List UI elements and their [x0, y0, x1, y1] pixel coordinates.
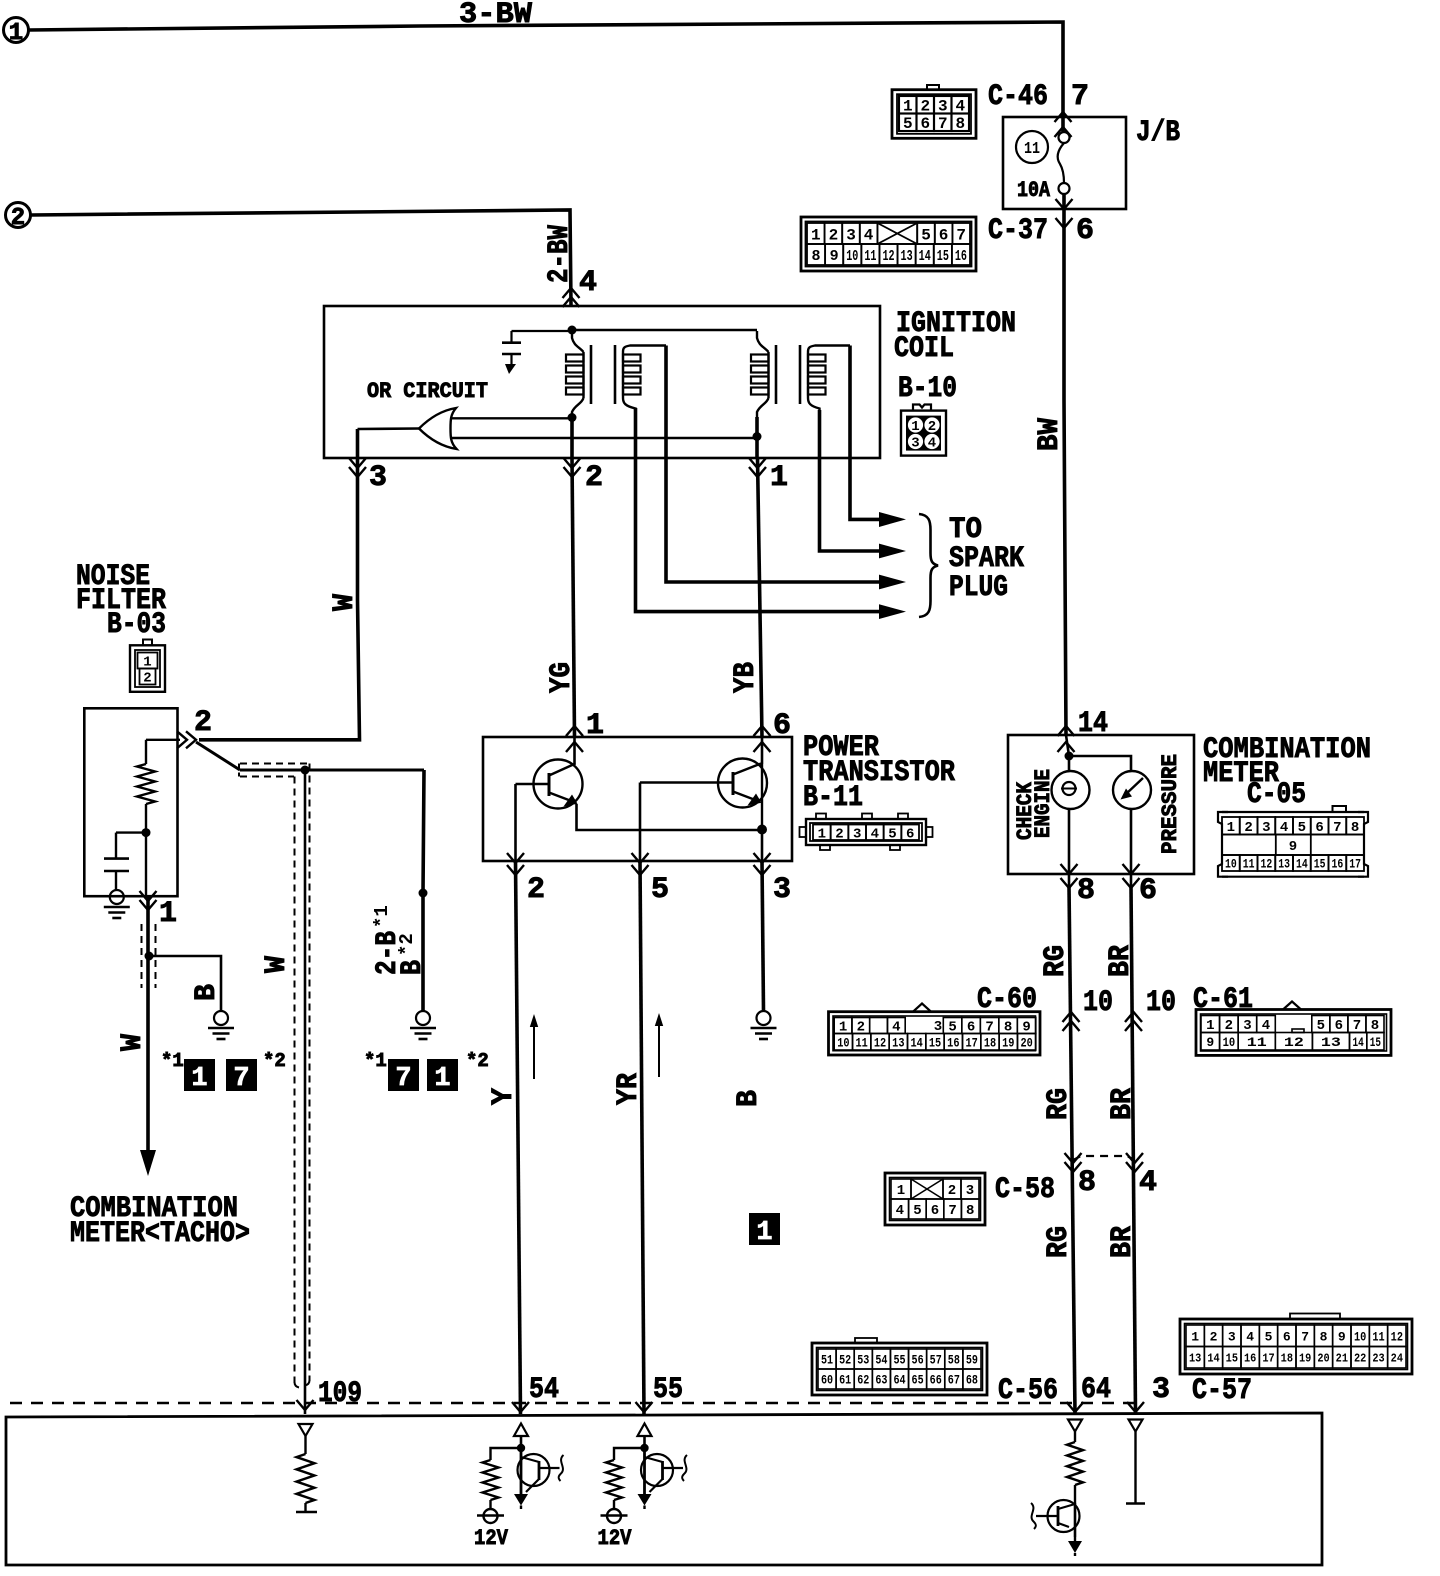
J/B bottom chevron — [1056, 199, 1073, 209]
svg-text:14: 14 — [1296, 857, 1308, 872]
BR chevron at C-58 — [1126, 1162, 1143, 1172]
junction block J/B box — [1003, 117, 1126, 209]
svg-text:8: 8 — [1077, 874, 1095, 908]
marker box 1 — [427, 1059, 458, 1091]
svg-text:2: 2 — [829, 226, 839, 244]
svg-text:1: 1 — [911, 419, 919, 435]
transistor Q1 — [534, 760, 583, 809]
wire resistor to pin 1 — [145, 804, 147, 896]
connector C-46 — [892, 90, 976, 139]
svg-text:22: 22 — [1354, 1352, 1366, 1366]
filter branch ground — [214, 1011, 228, 1025]
svg-text:8: 8 — [955, 115, 965, 133]
resistor in noise filter — [137, 764, 155, 804]
ECU pin 109 input triangle — [299, 1424, 313, 1436]
svg-text:59: 59 — [966, 1354, 978, 1368]
svg-text:14: 14 — [1353, 1035, 1364, 1050]
svg-text:7: 7 — [1301, 1329, 1309, 1344]
wire BR (meter pin 6 to ECU 3) — [1131, 886, 1136, 1413]
svg-text:B-11: B-11 — [803, 781, 863, 815]
wire pin6 to Q2 collector — [761, 737, 764, 764]
shield dashes around tacho wire — [141, 924, 143, 988]
connector C-60 — [829, 1012, 1041, 1055]
svg-text:1: 1 — [1206, 1018, 1214, 1034]
wire 3-BW from node 1 to J/B — [29, 22, 1063, 132]
svg-text:10: 10 — [1223, 1035, 1236, 1050]
svg-text:1: 1 — [756, 1218, 772, 1248]
svg-text:16: 16 — [955, 248, 967, 265]
svg-text:12: 12 — [1391, 1329, 1403, 1344]
BR chevron at C-61 — [1125, 1012, 1142, 1022]
svg-text:10A: 10A — [1017, 178, 1051, 203]
svg-text:11: 11 — [1372, 1329, 1384, 1344]
connector C-58 — [885, 1173, 985, 1225]
wire 2-BW from node 2 to ignition coil pin 4 — [31, 210, 571, 306]
svg-text:62: 62 — [857, 1374, 869, 1388]
junction node Q outputs — [757, 825, 767, 835]
wire lamp to pin 8 — [1068, 809, 1071, 886]
svg-text:*2: *2 — [396, 933, 418, 956]
svg-text:1: 1 — [191, 1064, 207, 1094]
capacitor in noise filter — [116, 831, 146, 833]
svg-text:2: 2 — [143, 671, 151, 687]
transistor pin 2 chevron — [507, 865, 524, 875]
svg-text:2: 2 — [585, 461, 603, 495]
svg-text:W: W — [260, 956, 294, 973]
svg-text:15: 15 — [1226, 1352, 1238, 1366]
svg-text:6: 6 — [906, 826, 914, 842]
svg-text:C-37: C-37 — [988, 214, 1048, 248]
svg-text:*1: *1 — [364, 1050, 387, 1072]
or-gate input wire bottom — [450, 437, 757, 439]
svg-text:*2: *2 — [263, 1050, 286, 1072]
svg-text:12: 12 — [882, 248, 894, 265]
pin 64 chevron — [1067, 1402, 1084, 1412]
svg-text:20: 20 — [1020, 1036, 1032, 1050]
fuse 11 10A — [1059, 132, 1070, 143]
svg-text:C-57: C-57 — [1192, 1374, 1252, 1408]
wire RG (meter pin 8 to ECU 64) — [1069, 886, 1075, 1413]
check engine lamp — [1052, 771, 1090, 809]
marker box 1 (transistor ground) — [749, 1213, 780, 1245]
svg-text:19: 19 — [1299, 1352, 1311, 1366]
svg-text:10: 10 — [1083, 986, 1113, 1020]
svg-text:W: W — [116, 1034, 150, 1051]
svg-text:1: 1 — [818, 826, 826, 842]
svg-text:C-61: C-61 — [1193, 983, 1253, 1017]
svg-text:20: 20 — [1317, 1352, 1329, 1366]
ECU pin 64 resistor — [1074, 1432, 1076, 1443]
svg-text:109: 109 — [318, 1377, 362, 1411]
svg-text:9: 9 — [1206, 1035, 1214, 1050]
pin 54 chevron — [512, 1402, 529, 1412]
wire pin5 riser — [639, 783, 642, 862]
connector B-03 — [130, 645, 165, 692]
svg-text:W: W — [328, 594, 362, 611]
svg-text:4: 4 — [928, 436, 936, 452]
transformer coil 1 — [572, 331, 584, 352]
svg-text:17: 17 — [965, 1036, 977, 1050]
svg-text:11: 11 — [1024, 140, 1040, 159]
ECU pin 109 resistor — [304, 1436, 306, 1454]
wire primary2 down to pin 1 — [755, 417, 759, 458]
marker box 7 (tacho) — [226, 1059, 257, 1091]
noise filter internal wire to pin 2 — [146, 739, 180, 741]
svg-text:61: 61 — [839, 1374, 851, 1388]
dashed link C-58 — [1073, 1156, 1135, 1160]
transistor pin 3 chevron — [754, 865, 771, 875]
svg-text:4: 4 — [896, 1203, 904, 1219]
svg-text:12V: 12V — [474, 1526, 509, 1551]
svg-text:7: 7 — [395, 1064, 411, 1094]
svg-text:4: 4 — [1246, 1329, 1254, 1344]
svg-text:1: 1 — [811, 226, 821, 244]
ECU pin 3 input triangle — [1129, 1420, 1143, 1432]
svg-text:15: 15 — [1370, 1035, 1381, 1050]
noise filter pin 2 chevron — [186, 731, 196, 748]
svg-text:11: 11 — [864, 248, 876, 265]
transistor B ground — [757, 1011, 771, 1025]
junction node in noise filter — [142, 828, 151, 837]
svg-text:13: 13 — [1278, 857, 1290, 872]
svg-text:5: 5 — [888, 826, 896, 842]
svg-text:5: 5 — [921, 226, 931, 244]
junction node on B wire — [419, 889, 428, 898]
svg-text:METER<TACHO>: METER<TACHO> — [70, 1217, 250, 1251]
wire W inside coil (pin 3) — [356, 429, 360, 458]
svg-text:9: 9 — [1289, 839, 1297, 855]
svg-text:63: 63 — [875, 1374, 887, 1388]
capacitor in coil — [502, 341, 521, 344]
wire to spark plug 3 — [666, 346, 881, 583]
svg-text:*1: *1 — [371, 905, 393, 928]
svg-text:11: 11 — [1243, 857, 1255, 872]
svg-text:1: 1 — [1191, 1329, 1199, 1344]
svg-text:RG: RG — [1042, 1088, 1076, 1120]
svg-text:6: 6 — [920, 115, 930, 133]
connector C-37 — [801, 217, 976, 271]
svg-text:13: 13 — [1321, 1035, 1341, 1050]
svg-text:2: 2 — [1244, 820, 1252, 836]
svg-text:60: 60 — [821, 1374, 833, 1388]
svg-text:RG: RG — [1039, 945, 1073, 977]
svg-text:6: 6 — [1076, 214, 1094, 248]
svg-text:10: 10 — [1354, 1329, 1366, 1344]
svg-text:66: 66 — [930, 1374, 942, 1388]
wire BW (J/B to combination meter pin 14) — [1064, 194, 1066, 735]
svg-text:55: 55 — [653, 1373, 683, 1407]
svg-text:2-BW: 2-BW — [543, 225, 577, 283]
svg-text:19: 19 — [1002, 1036, 1014, 1050]
svg-text:57: 57 — [930, 1354, 942, 1368]
svg-text:5: 5 — [1265, 1329, 1273, 1344]
svg-text:12V: 12V — [598, 1526, 633, 1551]
ignition coil box — [324, 306, 880, 458]
pin 6 chevron arrow — [1056, 218, 1073, 228]
svg-text:2: 2 — [194, 706, 212, 740]
svg-text:12: 12 — [1261, 857, 1273, 872]
shield end hooks — [295, 1379, 300, 1388]
power transistor box — [483, 737, 792, 861]
svg-text:65: 65 — [912, 1374, 924, 1388]
svg-text:3: 3 — [846, 226, 856, 244]
svg-text:64: 64 — [893, 1374, 906, 1388]
svg-text:17: 17 — [1262, 1352, 1274, 1366]
connector C-57 — [1180, 1319, 1412, 1374]
svg-text:10: 10 — [1146, 986, 1176, 1020]
svg-text:9: 9 — [1338, 1329, 1346, 1344]
svg-text:2: 2 — [527, 873, 545, 907]
svg-text:8: 8 — [1371, 1018, 1379, 1034]
svg-text:13: 13 — [1189, 1352, 1201, 1366]
wire YB (coil pin1 to transistor pin6) — [758, 458, 763, 737]
svg-text:B-10: B-10 — [898, 372, 957, 406]
svg-text:1: 1 — [770, 461, 788, 495]
B wire ground — [416, 1011, 430, 1025]
svg-text:4: 4 — [864, 226, 874, 244]
svg-text:12: 12 — [874, 1036, 886, 1050]
svg-text:23: 23 — [1372, 1352, 1384, 1366]
svg-text:COIL: COIL — [894, 332, 954, 366]
node 1 (page link circle) — [4, 18, 29, 43]
combination meter box — [1008, 735, 1194, 874]
svg-text:YB: YB — [729, 662, 763, 693]
svg-text:YG: YG — [545, 662, 579, 693]
svg-text:C-05: C-05 — [1247, 778, 1306, 812]
svg-text:3: 3 — [1152, 1373, 1170, 1407]
svg-text:56: 56 — [912, 1354, 924, 1368]
wire gauge to pin 6 — [1130, 809, 1133, 886]
svg-text:2: 2 — [1225, 1018, 1233, 1034]
svg-text:4: 4 — [1139, 1166, 1157, 1200]
wire to spark plug 2 — [820, 410, 882, 551]
svg-text:6: 6 — [1335, 1018, 1343, 1034]
noise filter pin 1 chevron — [140, 900, 157, 910]
svg-text:*1: *1 — [161, 1050, 184, 1072]
pin 3 chevron — [1127, 1402, 1144, 1412]
svg-text:4: 4 — [1262, 1018, 1270, 1034]
svg-text:B-03: B-03 — [107, 608, 166, 642]
svg-text:RG: RG — [1042, 1226, 1076, 1258]
svg-text:BR: BR — [1106, 1226, 1140, 1258]
svg-text:B: B — [732, 1090, 766, 1107]
connector B-10 — [901, 411, 946, 456]
wire Q1 base to pin 2 — [514, 784, 517, 861]
connector C-56 — [812, 1343, 987, 1395]
svg-text:7: 7 — [233, 1064, 249, 1094]
ECU pin 3 stub — [1134, 1432, 1136, 1504]
shielded wire W horizontal — [240, 769, 424, 772]
svg-text:7: 7 — [938, 115, 948, 133]
svg-text:BR: BR — [1106, 1088, 1140, 1120]
svg-text:16: 16 — [1332, 857, 1344, 872]
svg-text:18: 18 — [1281, 1352, 1293, 1366]
ECU pin 64 input triangle — [1068, 1420, 1082, 1432]
svg-text:C-58: C-58 — [995, 1173, 1055, 1207]
svg-text:4: 4 — [579, 266, 597, 300]
svg-text:16: 16 — [1244, 1352, 1256, 1366]
pin 7 chevron arrow — [1055, 112, 1072, 122]
ECU pin 54 internal circuit (pull-up + transistor + 12V) — [514, 1424, 528, 1437]
pin 3 chevron arrow — [349, 467, 366, 477]
svg-text:6: 6 — [1283, 1329, 1291, 1344]
page boundary dashed line — [10, 1402, 1137, 1404]
svg-text:14: 14 — [1207, 1352, 1219, 1366]
svg-text:1: 1 — [9, 20, 23, 47]
svg-text:4: 4 — [1280, 820, 1288, 836]
pin 109 chevron — [297, 1400, 314, 1410]
wire shield diagonal from pin 2 — [196, 742, 240, 770]
svg-text:6: 6 — [931, 1203, 939, 1219]
svg-text:C-56: C-56 — [998, 1374, 1058, 1408]
svg-text:3: 3 — [773, 873, 791, 907]
svg-text:16: 16 — [947, 1036, 959, 1050]
svg-text:24: 24 — [1391, 1352, 1403, 1366]
svg-text:YR: YR — [612, 1073, 646, 1105]
svg-text:11: 11 — [856, 1036, 868, 1050]
svg-text:1: 1 — [434, 1064, 450, 1094]
svg-text:17: 17 — [1349, 857, 1361, 872]
pressure gauge — [1113, 771, 1151, 809]
svg-text:10: 10 — [846, 248, 858, 265]
svg-text:5: 5 — [903, 115, 913, 133]
svg-text:6: 6 — [939, 226, 949, 244]
svg-text:53: 53 — [857, 1354, 869, 1368]
svg-text:7: 7 — [1071, 80, 1089, 114]
svg-text:3: 3 — [1243, 1018, 1251, 1034]
svg-text:B: B — [190, 984, 224, 1001]
svg-text:4: 4 — [871, 826, 879, 842]
junction node (or-gate top input) — [568, 413, 577, 422]
svg-text:10: 10 — [1225, 857, 1237, 872]
svg-text:6: 6 — [1139, 874, 1157, 908]
svg-text:5: 5 — [1317, 1018, 1325, 1034]
wire to check engine lamp — [1066, 735, 1069, 756]
svg-text:C-46: C-46 — [988, 80, 1048, 114]
svg-text:BW: BW — [1033, 418, 1067, 451]
svg-text:3: 3 — [966, 1183, 974, 1199]
svg-text:*2: *2 — [466, 1050, 489, 1072]
or-gate — [419, 408, 457, 449]
svg-text:15: 15 — [937, 248, 949, 265]
svg-text:2: 2 — [1210, 1329, 1218, 1344]
svg-text:64: 64 — [1081, 1373, 1111, 1407]
junction node (coil pin4/primary) — [568, 326, 577, 335]
ECU pin 109 resistor end — [296, 1511, 317, 1513]
wire coil top link to transformer 2 — [572, 329, 757, 331]
RG chevron at C-58 — [1065, 1162, 1082, 1172]
wire to pressure gauge — [1069, 756, 1131, 771]
svg-text:7: 7 — [1353, 1018, 1361, 1034]
shield dashes horizontal — [240, 763, 310, 765]
svg-text:8: 8 — [812, 248, 821, 265]
svg-text:3: 3 — [934, 1019, 942, 1035]
junction node below pin 1 — [145, 952, 154, 961]
svg-text:68: 68 — [966, 1374, 978, 1388]
svg-text:58: 58 — [948, 1354, 960, 1368]
wire primary1 to or-gate — [570, 417, 574, 458]
svg-text:PRESSURE: PRESSURE — [1158, 754, 1183, 854]
svg-text:11: 11 — [1247, 1035, 1267, 1050]
wire Q1 emitter run — [577, 804, 763, 830]
transformer coil 2 — [757, 331, 769, 352]
svg-text:2: 2 — [948, 1183, 956, 1199]
svg-text:14: 14 — [919, 248, 931, 265]
svg-text:1: 1 — [897, 1183, 905, 1199]
svg-text:2: 2 — [835, 826, 843, 842]
marker box 7 — [388, 1059, 419, 1091]
svg-text:13: 13 — [892, 1036, 904, 1050]
noise filter box — [84, 708, 177, 896]
ECU box — [6, 1413, 1322, 1565]
svg-text:5: 5 — [913, 1203, 921, 1219]
pin 1 chevron arrow — [749, 467, 766, 477]
svg-text:3: 3 — [1228, 1329, 1236, 1344]
meter pin 8 chevron — [1061, 864, 1078, 874]
wire YR (pin5 to ECU 55) — [640, 861, 644, 1414]
svg-text:5: 5 — [651, 873, 669, 907]
junction node on shielded wire — [301, 766, 310, 775]
svg-text:3: 3 — [853, 826, 861, 842]
svg-text:52: 52 — [839, 1354, 851, 1368]
ECU pin 55 internal circuit (pull-up + transistor + 12V) — [638, 1424, 652, 1437]
svg-text:18: 18 — [984, 1036, 996, 1050]
svg-text:7: 7 — [1333, 820, 1341, 836]
svg-text:Y: Y — [487, 1088, 521, 1105]
wire to spark plug 4 — [636, 408, 882, 612]
connector C-61 — [1196, 1010, 1391, 1056]
junction node in meter — [1065, 752, 1074, 761]
svg-text:8: 8 — [1351, 820, 1359, 836]
junction node (pin 1 / or-gate bottom input) — [753, 432, 762, 441]
svg-text:PLUG: PLUG — [949, 571, 1008, 605]
svg-text:2: 2 — [11, 205, 25, 232]
svg-text:13: 13 — [901, 248, 913, 265]
svg-text:J/B: J/B — [1136, 116, 1180, 150]
svg-text:67: 67 — [948, 1374, 960, 1388]
svg-text:55: 55 — [893, 1354, 905, 1368]
wire B (pin3 to ground) — [762, 861, 764, 1011]
svg-text:54: 54 — [875, 1354, 888, 1368]
svg-text:B: B — [396, 960, 430, 975]
meter pin 6 chevron — [1123, 864, 1140, 874]
wire branch to B ground — [149, 956, 221, 1011]
pin 55 chevron — [636, 1402, 653, 1412]
svg-text:9: 9 — [830, 248, 839, 265]
svg-text:6: 6 — [1315, 820, 1323, 836]
wire 2-B to ground — [423, 770, 424, 1011]
svg-text:7: 7 — [956, 226, 966, 244]
svg-text:2: 2 — [928, 419, 936, 435]
pin 4 chevron arrow — [563, 288, 580, 298]
pin 14 chevron — [1058, 726, 1075, 736]
svg-text:BR: BR — [1104, 945, 1138, 977]
svg-text:3: 3 — [369, 461, 387, 495]
wire Y (pin2 to ECU 54) — [516, 861, 521, 1414]
wire Q2 to junction — [761, 764, 763, 830]
svg-text:8: 8 — [1320, 1329, 1328, 1344]
svg-text:3: 3 — [1262, 820, 1270, 836]
connector C-05 — [1218, 812, 1228, 877]
brace for spark plugs — [919, 514, 938, 617]
transistor pin 6 chevron — [754, 726, 771, 736]
svg-text:51: 51 — [821, 1354, 833, 1368]
svg-text:1: 1 — [159, 897, 177, 931]
svg-text:5: 5 — [1298, 820, 1306, 836]
svg-text:3: 3 — [911, 436, 919, 452]
transistor pin 1 chevron — [566, 726, 583, 736]
svg-text:3-BW: 3-BW — [459, 0, 532, 32]
